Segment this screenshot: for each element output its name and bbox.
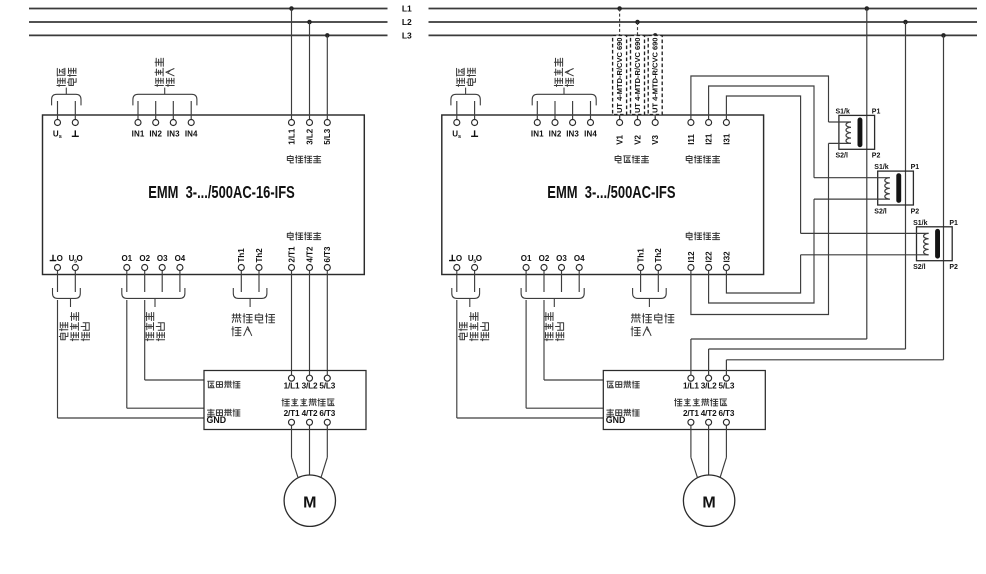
svg-text:P1: P1 — [949, 220, 958, 227]
svg-text:V1: V1 — [615, 134, 624, 144]
svg-text:O: O — [476, 254, 482, 263]
svg-text:S1/k: S1/k — [913, 220, 928, 227]
svg-text:I12: I12 — [687, 251, 696, 263]
svg-text:O4: O4 — [175, 254, 186, 263]
svg-text:V2: V2 — [633, 134, 642, 144]
svg-text:EMM 3-.../500AC-IFS: EMM 3-.../500AC-IFS — [547, 182, 675, 202]
svg-text:6/T3: 6/T3 — [319, 409, 335, 418]
svg-text:5/L3: 5/L3 — [319, 382, 335, 391]
svg-text:O: O — [456, 254, 462, 263]
svg-text:GND: GND — [606, 415, 626, 425]
svg-text:O: O — [57, 254, 63, 263]
svg-text:Th2: Th2 — [654, 248, 663, 263]
svg-text:O2: O2 — [539, 254, 550, 263]
svg-text:P2: P2 — [872, 153, 881, 160]
svg-text:IN3: IN3 — [167, 129, 180, 138]
svg-text:6/T3: 6/T3 — [719, 409, 735, 418]
svg-text:4/T2: 4/T2 — [302, 409, 318, 418]
svg-text:I22: I22 — [704, 251, 713, 263]
svg-text:GND: GND — [207, 415, 227, 425]
svg-text:S2/l: S2/l — [913, 264, 926, 271]
svg-text:1/L1: 1/L1 — [284, 382, 300, 391]
svg-text:s: s — [59, 134, 62, 140]
svg-text:2/T1: 2/T1 — [284, 409, 300, 418]
svg-text:UT 4-MTD-R/CVC 690: UT 4-MTD-R/CVC 690 — [615, 38, 624, 114]
svg-text:O: O — [77, 254, 83, 263]
svg-text:M: M — [303, 495, 316, 512]
svg-text:O1: O1 — [521, 254, 532, 263]
svg-text:1/L1: 1/L1 — [683, 382, 699, 391]
svg-text:Th2: Th2 — [255, 248, 264, 263]
svg-text:P1: P1 — [872, 108, 881, 115]
svg-text:O3: O3 — [556, 254, 567, 263]
svg-text:s: s — [458, 134, 461, 140]
svg-text:IN4: IN4 — [185, 129, 198, 138]
svg-text:P1: P1 — [911, 164, 920, 171]
svg-text:L2: L2 — [402, 17, 412, 27]
svg-text:I32: I32 — [722, 251, 731, 263]
svg-text:I21: I21 — [704, 133, 713, 145]
svg-text:P2: P2 — [911, 208, 920, 215]
svg-text:IN1: IN1 — [531, 129, 544, 138]
svg-text:3/L2: 3/L2 — [302, 382, 318, 391]
svg-text:S2/l: S2/l — [836, 153, 849, 160]
svg-text:2/T1: 2/T1 — [683, 409, 699, 418]
svg-text:O1: O1 — [121, 254, 132, 263]
svg-text:V3: V3 — [651, 134, 660, 144]
svg-text:UT 4-MTD-R/CVC 690: UT 4-MTD-R/CVC 690 — [651, 38, 660, 114]
svg-text:O4: O4 — [574, 254, 585, 263]
svg-text:IN3: IN3 — [566, 129, 579, 138]
svg-text:L3: L3 — [402, 30, 412, 40]
svg-text:4/T2: 4/T2 — [701, 409, 717, 418]
svg-text:Th1: Th1 — [237, 248, 246, 263]
svg-text:2/T1: 2/T1 — [287, 246, 296, 263]
svg-text:I31: I31 — [722, 133, 731, 145]
svg-text:S2/l: S2/l — [874, 208, 887, 215]
svg-text:1/L1: 1/L1 — [287, 128, 296, 145]
svg-text:M: M — [702, 495, 715, 512]
svg-text:5/L3: 5/L3 — [323, 128, 332, 145]
svg-text:IN2: IN2 — [549, 129, 562, 138]
svg-text:O2: O2 — [139, 254, 150, 263]
svg-text:4/T2: 4/T2 — [305, 246, 314, 263]
svg-text:IN4: IN4 — [584, 129, 597, 138]
svg-text:6/T3: 6/T3 — [323, 246, 332, 263]
svg-text:S1/k: S1/k — [874, 164, 889, 171]
svg-text:IN2: IN2 — [149, 129, 162, 138]
svg-text:3/L2: 3/L2 — [305, 128, 314, 145]
svg-text:3/L2: 3/L2 — [701, 382, 717, 391]
svg-text:O3: O3 — [157, 254, 168, 263]
svg-text:IN1: IN1 — [132, 129, 145, 138]
svg-text:L1: L1 — [402, 4, 412, 14]
svg-text:P2: P2 — [949, 264, 958, 271]
svg-text:I11: I11 — [687, 134, 696, 145]
svg-text:5/L3: 5/L3 — [719, 382, 735, 391]
svg-text:EMM 3-.../500AC-16-IFS: EMM 3-.../500AC-16-IFS — [148, 182, 295, 202]
svg-text:UT 4-MTD-R/CVC 690: UT 4-MTD-R/CVC 690 — [633, 38, 642, 114]
svg-text:Th1: Th1 — [636, 248, 645, 263]
svg-text:S1/k: S1/k — [836, 108, 851, 115]
